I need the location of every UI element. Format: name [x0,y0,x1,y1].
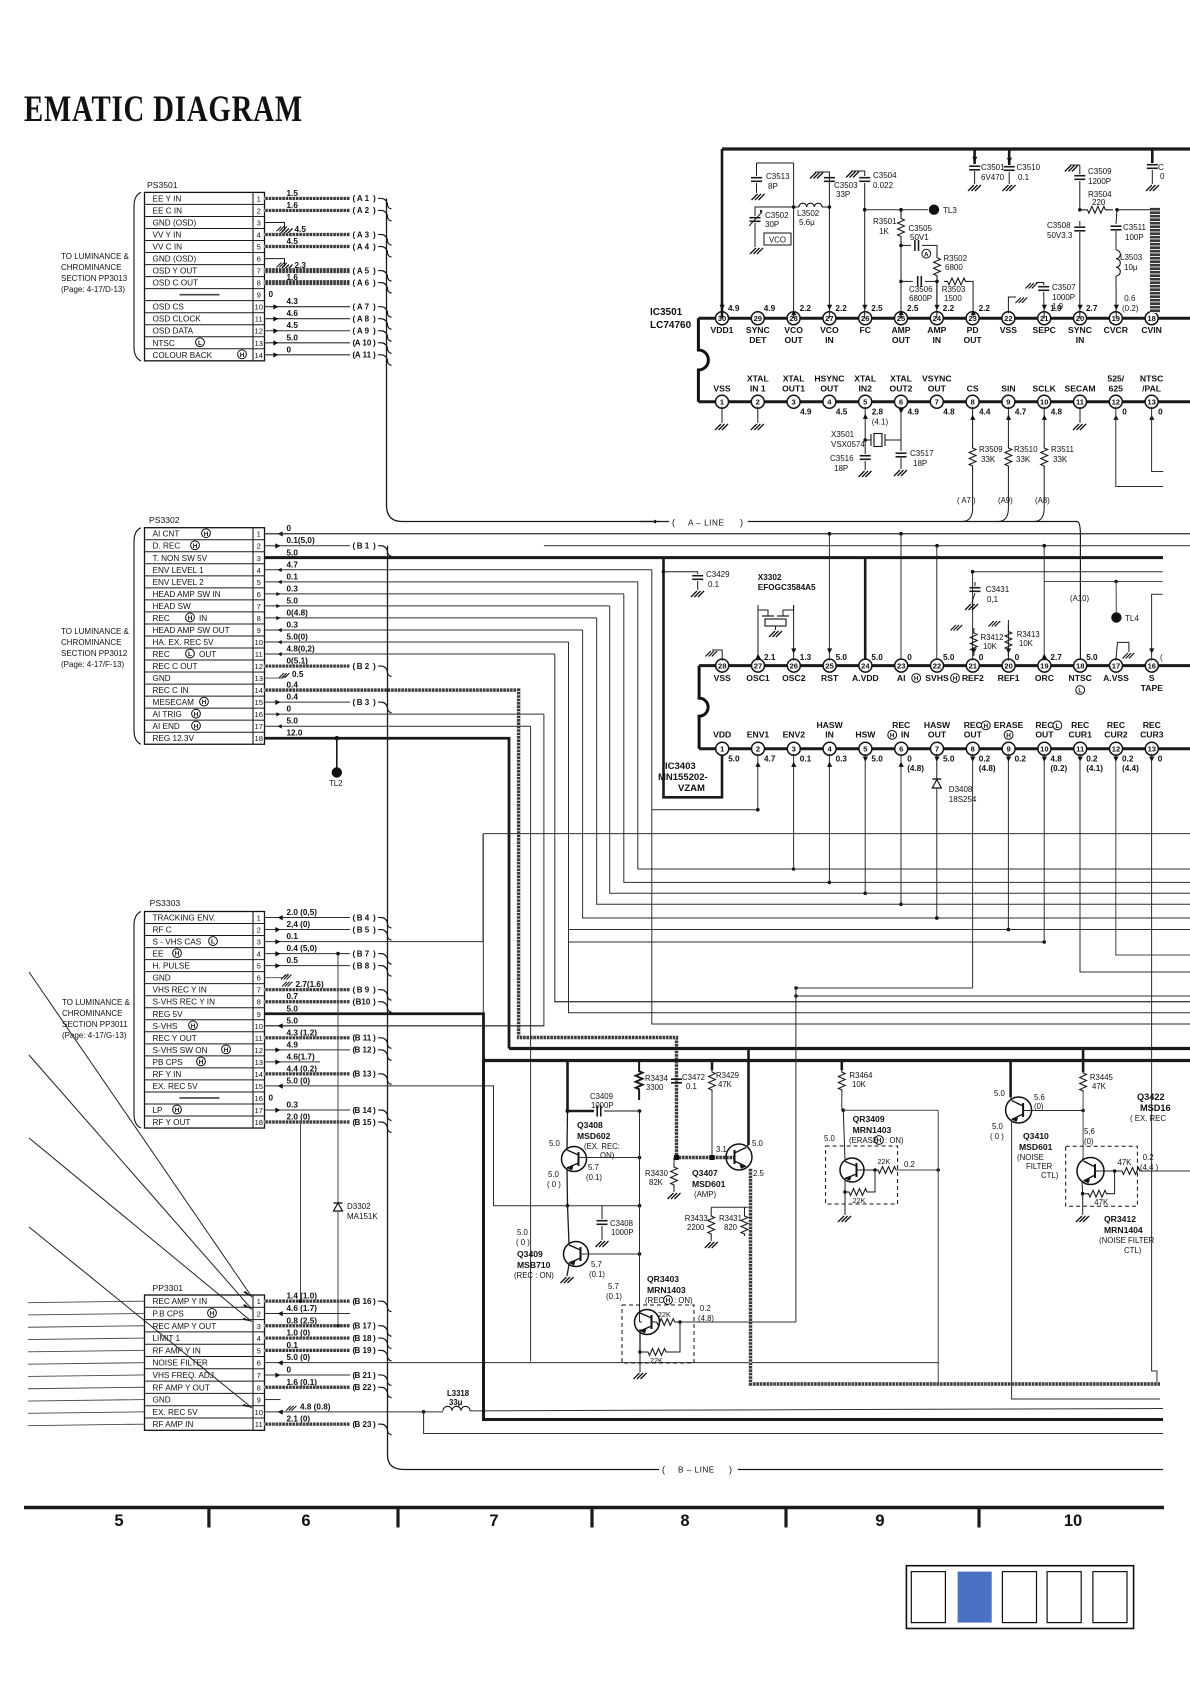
capacitor C3510 0.1 [1008,149,1011,165]
svg-text:): ) [740,518,743,528]
svg-text:REC Y OUT: REC Y OUT [153,1034,197,1043]
wire REC CUR1 pin11 down [1080,754,1190,972]
svg-text:R3433: R3433 [685,1214,708,1223]
wire R3504 to CVIN [1117,209,1150,211]
svg-text:AMP: AMP [891,325,910,335]
svg-text:9: 9 [1006,745,1010,754]
svg-text:16: 16 [255,710,263,719]
svg-text:R3501: R3501 [873,217,897,226]
wire vertical x300 RF net [300,1122,302,1301]
svg-text:R3429: R3429 [716,1071,739,1080]
svg-text:EE Y IN: EE Y IN [153,194,182,203]
svg-text:EE: EE [153,950,164,959]
IC3501 pin 28 VCO/OUT [787,312,800,325]
svg-text:25: 25 [825,661,834,670]
svg-text:0.2: 0.2 [979,755,991,764]
svg-text:4.8 (0.8): 4.8 (0.8) [300,1402,331,1411]
svg-text:): ) [373,924,376,934]
svg-text:4.9: 4.9 [908,408,920,417]
svg-text:(ERASE: (ERASE [849,1136,878,1145]
svg-text:OUT: OUT [199,650,216,659]
svg-text:6: 6 [899,745,903,754]
svg-text:H: H [204,531,209,538]
svg-text:B – LINE: B – LINE [678,1466,715,1475]
IC3501 pin 7 VSYNC/OUT [930,395,943,408]
svg-text:OUT: OUT [928,384,947,394]
svg-text:L3318: L3318 [447,1389,470,1398]
wire QR3403 base [640,1321,643,1323]
svg-text:0: 0 [287,705,292,714]
svg-text:RF AMP Y OUT: RF AMP Y OUT [153,1383,210,1392]
svg-text:( 0 ): ( 0 ) [547,1180,561,1189]
svg-text:C3506: C3506 [909,285,933,294]
capacitor C3506 6800P [901,280,913,282]
wire RST pin25 [828,534,830,661]
svg-text:(: ( [353,948,356,958]
svg-text:H: H [193,543,198,550]
wire EX REC node [494,1205,568,1207]
svg-text:B 16: B 16 [355,1297,372,1306]
IC3403 pin 25 RST [823,659,836,672]
svg-text:): ) [373,1419,376,1429]
svg-text:15: 15 [255,1082,263,1091]
svg-text:): ) [373,314,376,324]
IC3501 pin 18 CVIN [1145,312,1158,325]
svg-text:0.1: 0.1 [800,755,812,764]
svg-text:7: 7 [489,1512,498,1530]
transistor Q3409 MSB710 [564,1242,589,1267]
svg-text:2.1 (0): 2.1 (0) [287,1415,311,1424]
svg-text:MESECAM: MESECAM [153,698,195,707]
wire QR3409 collector node right [843,1109,938,1111]
svg-text:L3503: L3503 [1120,253,1143,262]
svg-text:ENV LEVEL 2: ENV LEVEL 2 [153,578,205,587]
svg-text:VCO: VCO [769,236,786,245]
svg-text:(Page: 4-17/G-13): (Page: 4-17/G-13) [62,1031,127,1040]
svg-text:5.0: 5.0 [992,1122,1004,1131]
wire bend x651 [652,570,758,810]
svg-text:REC AMP Y IN: REC AMP Y IN [153,1297,208,1306]
svg-text:3.1: 3.1 [716,1145,727,1154]
capacitor at right edge [1151,150,1154,163]
IC3403 pin 19 ORC [1038,659,1051,672]
svg-text:0.1: 0.1 [708,580,720,589]
svg-text:3: 3 [257,938,261,947]
svg-text:OSD C OUT: OSD C OUT [153,279,199,288]
svg-text:0.2: 0.2 [700,1304,711,1313]
svg-text:0: 0 [287,524,292,533]
labels QR3412 nets [938,1362,940,1364]
IC3403 pin 2 ENV1 [752,742,765,755]
svg-text:R3464: R3464 [850,1071,874,1080]
svg-text:0: 0 [1122,408,1127,417]
title SCHEMATIC DIAGRAM (cropped) [24,89,303,130]
svg-text:10: 10 [1040,745,1048,754]
wire ENV2 pin3 down [793,754,795,869]
svg-text:7: 7 [257,267,261,276]
svg-text:2.2: 2.2 [979,304,991,313]
svg-text:13: 13 [1147,398,1155,407]
svg-text:6: 6 [257,1359,261,1368]
wire C3513 to VCO node [757,162,794,164]
svg-text:5.0: 5.0 [871,755,883,764]
svg-text:(: ( [353,661,356,671]
svg-text:5.6μ: 5.6μ [799,218,815,227]
rail y869 to right edge [794,868,1190,870]
rail SVHS net y545.7 [544,545,1190,547]
wire L3502 to VCO IN [822,206,829,208]
svg-text:C3516: C3516 [830,454,854,463]
svg-text:4.3: 4.3 [287,297,299,306]
svg-text:0: 0 [1158,755,1163,764]
svg-text:5.0: 5.0 [994,1089,1006,1098]
wire QR3409 collector [843,1110,845,1160]
svg-text:(: ( [353,301,356,311]
svg-text:8: 8 [971,745,975,754]
svg-text:0.1(5,0): 0.1(5,0) [287,536,315,545]
svg-text:CHROMINANCE: CHROMINANCE [62,1009,122,1018]
wire S TAPE pin16 [1152,594,1163,660]
wire REC L OUT pin10 down [1043,754,1045,942]
svg-text:0.8 (2.5): 0.8 (2.5) [287,1316,318,1325]
svg-text:C3517: C3517 [910,449,934,458]
svg-text:C3508: C3508 [1047,221,1071,230]
svg-text:S: S [1149,673,1155,683]
wire QR3409 out down [937,1110,939,1384]
svg-text:XTAL: XTAL [747,374,769,384]
svg-text:4.9: 4.9 [800,408,812,417]
svg-text:CTL): CTL) [1124,1246,1142,1255]
svg-text:PP3301: PP3301 [153,1283,184,1293]
svg-text:9: 9 [875,1512,884,1530]
wire y1024 full [652,810,1190,1024]
svg-text:REC: REC [1107,720,1125,730]
variable capacitor C3502 30P (VCO) [754,211,756,216]
svg-text:0.7: 0.7 [287,992,299,1001]
svg-text:L: L [211,939,215,946]
ruler scale bar [24,1506,1164,1510]
svg-text:: ON): : ON) [674,1296,693,1305]
svg-text:S - VHS CAS: S - VHS CAS [153,938,202,947]
svg-text:): ) [373,1105,376,1115]
wire Q3408 base [579,1157,640,1159]
svg-text:0.2: 0.2 [1086,755,1098,764]
svg-text:82K: 82K [649,1178,664,1187]
svg-text:0: 0 [269,290,274,299]
svg-text:(A10): (A10) [1070,594,1089,603]
svg-text:REC: REC [153,650,170,659]
svg-text:(0.1): (0.1) [586,1173,602,1182]
svg-text:24: 24 [861,661,870,670]
wire SYNC IN pin20 [1079,232,1081,318]
IC3501 pin 22 VSS [1002,312,1015,325]
svg-text:A 11: A 11 [355,351,372,360]
svg-text:(: ( [353,924,356,934]
svg-text:LP: LP [153,1106,164,1115]
IC3501 pin 19 CVCR [1109,312,1122,325]
svg-text:VHS REC Y IN: VHS REC Y IN [153,986,207,995]
svg-text:2.5: 2.5 [871,304,883,313]
svg-text:H: H [188,615,193,622]
svg-text:MSD601: MSD601 [692,1179,726,1189]
svg-text:B 11: B 11 [355,1034,372,1043]
svg-text:EE C IN: EE C IN [153,206,183,215]
svg-text:6: 6 [257,255,261,264]
svg-text:13: 13 [1148,745,1156,754]
svg-text:REF2: REF2 [962,673,984,683]
svg-text:12: 12 [255,662,263,671]
svg-text:4.8: 4.8 [943,408,955,417]
svg-text:0.3: 0.3 [287,584,299,593]
svg-text:5.0 (0): 5.0 (0) [287,1076,311,1085]
svg-text:C3507: C3507 [1052,283,1076,292]
pagination footer box [906,1566,1133,1629]
svg-text:0.5: 0.5 [287,956,299,965]
svg-text:H: H [877,1138,882,1145]
svg-text:4: 4 [257,950,261,959]
svg-text:4: 4 [257,566,261,575]
svg-text:DET: DET [749,335,767,345]
svg-text:2.0 (0,5): 2.0 (0,5) [287,908,318,917]
svg-text:(4.1): (4.1) [872,418,889,427]
svg-text:TL3: TL3 [943,206,957,215]
op-amp IC U IC3501 LC74760 body [698,318,708,402]
svg-text:C3409: C3409 [590,1092,613,1101]
svg-text:8: 8 [257,279,261,288]
svg-text:MRN1404: MRN1404 [1104,1225,1143,1235]
svg-text:820: 820 [724,1223,738,1232]
svg-text:4.6: 4.6 [287,309,299,318]
svg-text:4.8(0,2): 4.8(0,2) [287,645,315,654]
svg-text:H. PULSE: H. PULSE [153,962,191,971]
svg-text:(: ( [353,697,356,707]
IC3501 pin 5 XTAL/IN2 [859,395,872,408]
svg-text:TL2: TL2 [329,779,342,788]
svg-text:4.7: 4.7 [764,755,776,764]
svg-text:4.5: 4.5 [287,237,299,246]
transistor Q3410 MSD601 [1009,1061,1012,1098]
svg-text:14: 14 [255,686,263,695]
wire ERASE pin9 down [1007,754,1009,930]
svg-text:AI TRIG: AI TRIG [153,710,182,719]
svg-text:S-VHS REC Y IN: S-VHS REC Y IN [153,998,216,1007]
pagination square 1 [911,1572,945,1623]
svg-text:100P: 100P [1125,233,1144,242]
svg-text:FILTER: FILTER [1026,1162,1053,1171]
svg-text:18: 18 [1076,661,1084,670]
svg-text:B 22: B 22 [355,1383,372,1392]
svg-text:B 5: B 5 [357,925,370,934]
svg-text:H: H [983,723,988,730]
svg-text:GND: GND [153,974,171,983]
node y1207 under Q3407 [711,1206,748,1208]
svg-text:(REC: (REC [645,1296,664,1305]
pagination square 4 [1047,1572,1081,1623]
svg-text:H: H [194,711,199,718]
svg-text:23: 23 [897,661,905,670]
svg-text:5: 5 [114,1512,123,1530]
svg-text:3: 3 [257,554,261,563]
svg-text:(Page: 4-17/D-13): (Page: 4-17/D-13) [61,285,125,294]
svg-text:A.VDD: A.VDD [852,673,879,683]
svg-text:(: ( [672,518,675,528]
svg-text:5.0: 5.0 [943,653,955,662]
svg-text:R3413: R3413 [1017,630,1040,639]
svg-text:17: 17 [255,1106,263,1115]
ruler tick [784,1508,787,1528]
svg-text:12: 12 [255,1046,263,1055]
svg-text:12.0: 12.0 [287,729,303,738]
svg-text:5.0: 5.0 [824,1134,836,1143]
IC3501 pin 20 SYNC/IN [1074,312,1087,325]
wire Q3409 collector [568,1206,570,1244]
svg-text:GND: GND [153,1396,171,1405]
wire AI END down [530,726,532,1361]
svg-text:33K: 33K [981,455,996,464]
svg-text:14: 14 [255,351,263,360]
svg-text:IN: IN [1076,335,1085,345]
svg-text:1.6: 1.6 [287,201,299,210]
svg-text:1: 1 [257,914,261,923]
svg-text:10K: 10K [1019,639,1034,648]
svg-text:CVCR: CVCR [1104,325,1129,335]
svg-text:IN: IN [933,335,942,345]
svg-text:A 9: A 9 [357,327,370,336]
svg-text:2: 2 [756,745,760,754]
svg-text:1.6 (0.1): 1.6 (0.1) [287,1378,318,1387]
svg-text:QR3412: QR3412 [1104,1214,1136,1224]
svg-text:13: 13 [255,1058,263,1067]
svg-text:0: 0 [269,1093,274,1102]
svg-text:5.0: 5.0 [943,755,955,764]
svg-text:D. REC: D. REC [153,542,181,551]
wire ENV1 pin2 loop [757,754,759,810]
svg-text:(: ( [353,193,356,203]
svg-text:(EX. REC:: (EX. REC: [584,1142,620,1151]
svg-text:33K: 33K [1053,455,1068,464]
svg-text:C3408: C3408 [610,1219,633,1228]
IC3403 pin 9 ERASE/H [1002,742,1015,755]
IC3403 pin 5 HSW [859,742,872,755]
svg-text:A 3: A 3 [357,230,370,239]
wire bend x637 [638,582,794,869]
svg-text:VHS FREQ. ADJ.: VHS FREQ. ADJ. [153,1371,217,1380]
IC3501 pin 26 FC [859,312,872,325]
wire IC3501 pin13 NTSC/PAL [1149,415,1154,420]
svg-text:): ) [373,1333,376,1343]
wire CVCR pin19 [1115,276,1117,318]
svg-text:C3429: C3429 [706,570,730,579]
svg-text:PS3302: PS3302 [149,515,180,525]
IC3403 pin 16 S/TAPE [1145,659,1158,672]
svg-text:11: 11 [1076,398,1085,407]
svg-text:5.0: 5.0 [728,755,740,764]
svg-text:H: H [1006,733,1011,740]
svg-text:( EX. REC: ( EX. REC [1130,1114,1166,1123]
capacitor C3429 0.1 [662,570,666,574]
svg-text:B 17: B 17 [355,1322,372,1331]
svg-text:EX. REC 5V: EX. REC 5V [153,1408,199,1417]
wire QR3412 collector [1082,1158,1083,1160]
svg-text:VSYNC: VSYNC [922,374,952,384]
wire Q3409 base [581,1253,640,1255]
rail y833.6 [483,833,1190,835]
svg-text:2200: 2200 [687,1223,705,1232]
svg-text:0.1: 0.1 [287,932,299,941]
resistor R3434 3300 [636,1061,643,1101]
IC3403 pin 27 OSC1 [752,659,765,672]
wire AMP IN pin24 [936,281,938,303]
svg-text:6800: 6800 [945,263,963,272]
IC3403 pin 13 REC/CUR3 [1145,742,1158,755]
svg-text:4.9: 4.9 [764,304,776,313]
transistor Q3407 MSD601 [726,1144,752,1170]
svg-text:H: H [666,1298,671,1305]
svg-text:HSW: HSW [855,730,876,740]
svg-text:18: 18 [1147,314,1155,323]
IC3501 pin 24 AMP/IN [930,312,943,325]
svg-text:4.6(1.7): 4.6(1.7) [287,1052,315,1061]
svg-text:SECTION PP3011: SECTION PP3011 [62,1020,128,1029]
svg-text:5.0: 5.0 [287,596,299,605]
svg-text:1200P: 1200P [1088,177,1111,186]
svg-text:0: 0 [907,755,912,764]
svg-text:SECTION PP3012: SECTION PP3012 [61,649,128,658]
svg-text:IN: IN [199,614,207,623]
svg-text:(4.8): (4.8) [979,764,996,773]
svg-text:): ) [373,301,376,311]
svg-text:XTAL: XTAL [783,374,805,384]
svg-text:19: 19 [1040,661,1048,670]
transistor Q3408 MSD602 [562,1147,587,1172]
svg-text:5.0 (0): 5.0 (0) [287,1353,311,1362]
rail y929 to right edge [569,929,1190,931]
svg-text:H: H [240,352,245,359]
svg-text:NTSC: NTSC [153,339,175,348]
ground QR3412 [1082,1194,1084,1215]
wire base bus x639.5 [639,1111,641,1322]
svg-text:5: 5 [257,578,261,587]
diode D3302 MA151K [337,954,339,1203]
svg-text:0: 0 [979,653,984,662]
svg-text:2: 2 [257,926,261,935]
svg-text:IN 1: IN 1 [750,384,766,394]
svg-text:4.3 (1.2): 4.3 (1.2) [287,1028,318,1037]
svg-text:L: L [1078,688,1082,695]
A-bus vertical from PS3501 hooks down to A-LINE [386,198,388,505]
svg-text:R3510: R3510 [1014,445,1038,454]
svg-text:4.8: 4.8 [1050,755,1062,764]
svg-text:VV Y IN: VV Y IN [153,231,182,240]
PS3501 left bracket [134,192,141,360]
svg-text:1.0 (0): 1.0 (0) [287,1329,311,1338]
svg-text:Q3409: Q3409 [517,1249,543,1259]
svg-text:7: 7 [935,398,939,407]
svg-text:6: 6 [899,398,903,407]
svg-text:ENV2: ENV2 [783,730,806,740]
svg-text:): ) [373,1033,376,1043]
thick bus rail y1060.5 [484,1059,1190,1062]
ground stub PS3302 pin 13 [265,674,289,678]
svg-text:(A8): (A8) [1035,496,1050,505]
svg-text:TO LUMINANCE &: TO LUMINANCE & [62,998,131,1007]
wire FC pin26 [864,183,866,318]
svg-text:): ) [373,541,376,551]
resistor 47K QR3412 base [1096,1170,1115,1172]
svg-text:NTSC: NTSC [1068,673,1091,683]
svg-text:NTSC: NTSC [1140,374,1163,384]
svg-text:): ) [373,1045,376,1055]
